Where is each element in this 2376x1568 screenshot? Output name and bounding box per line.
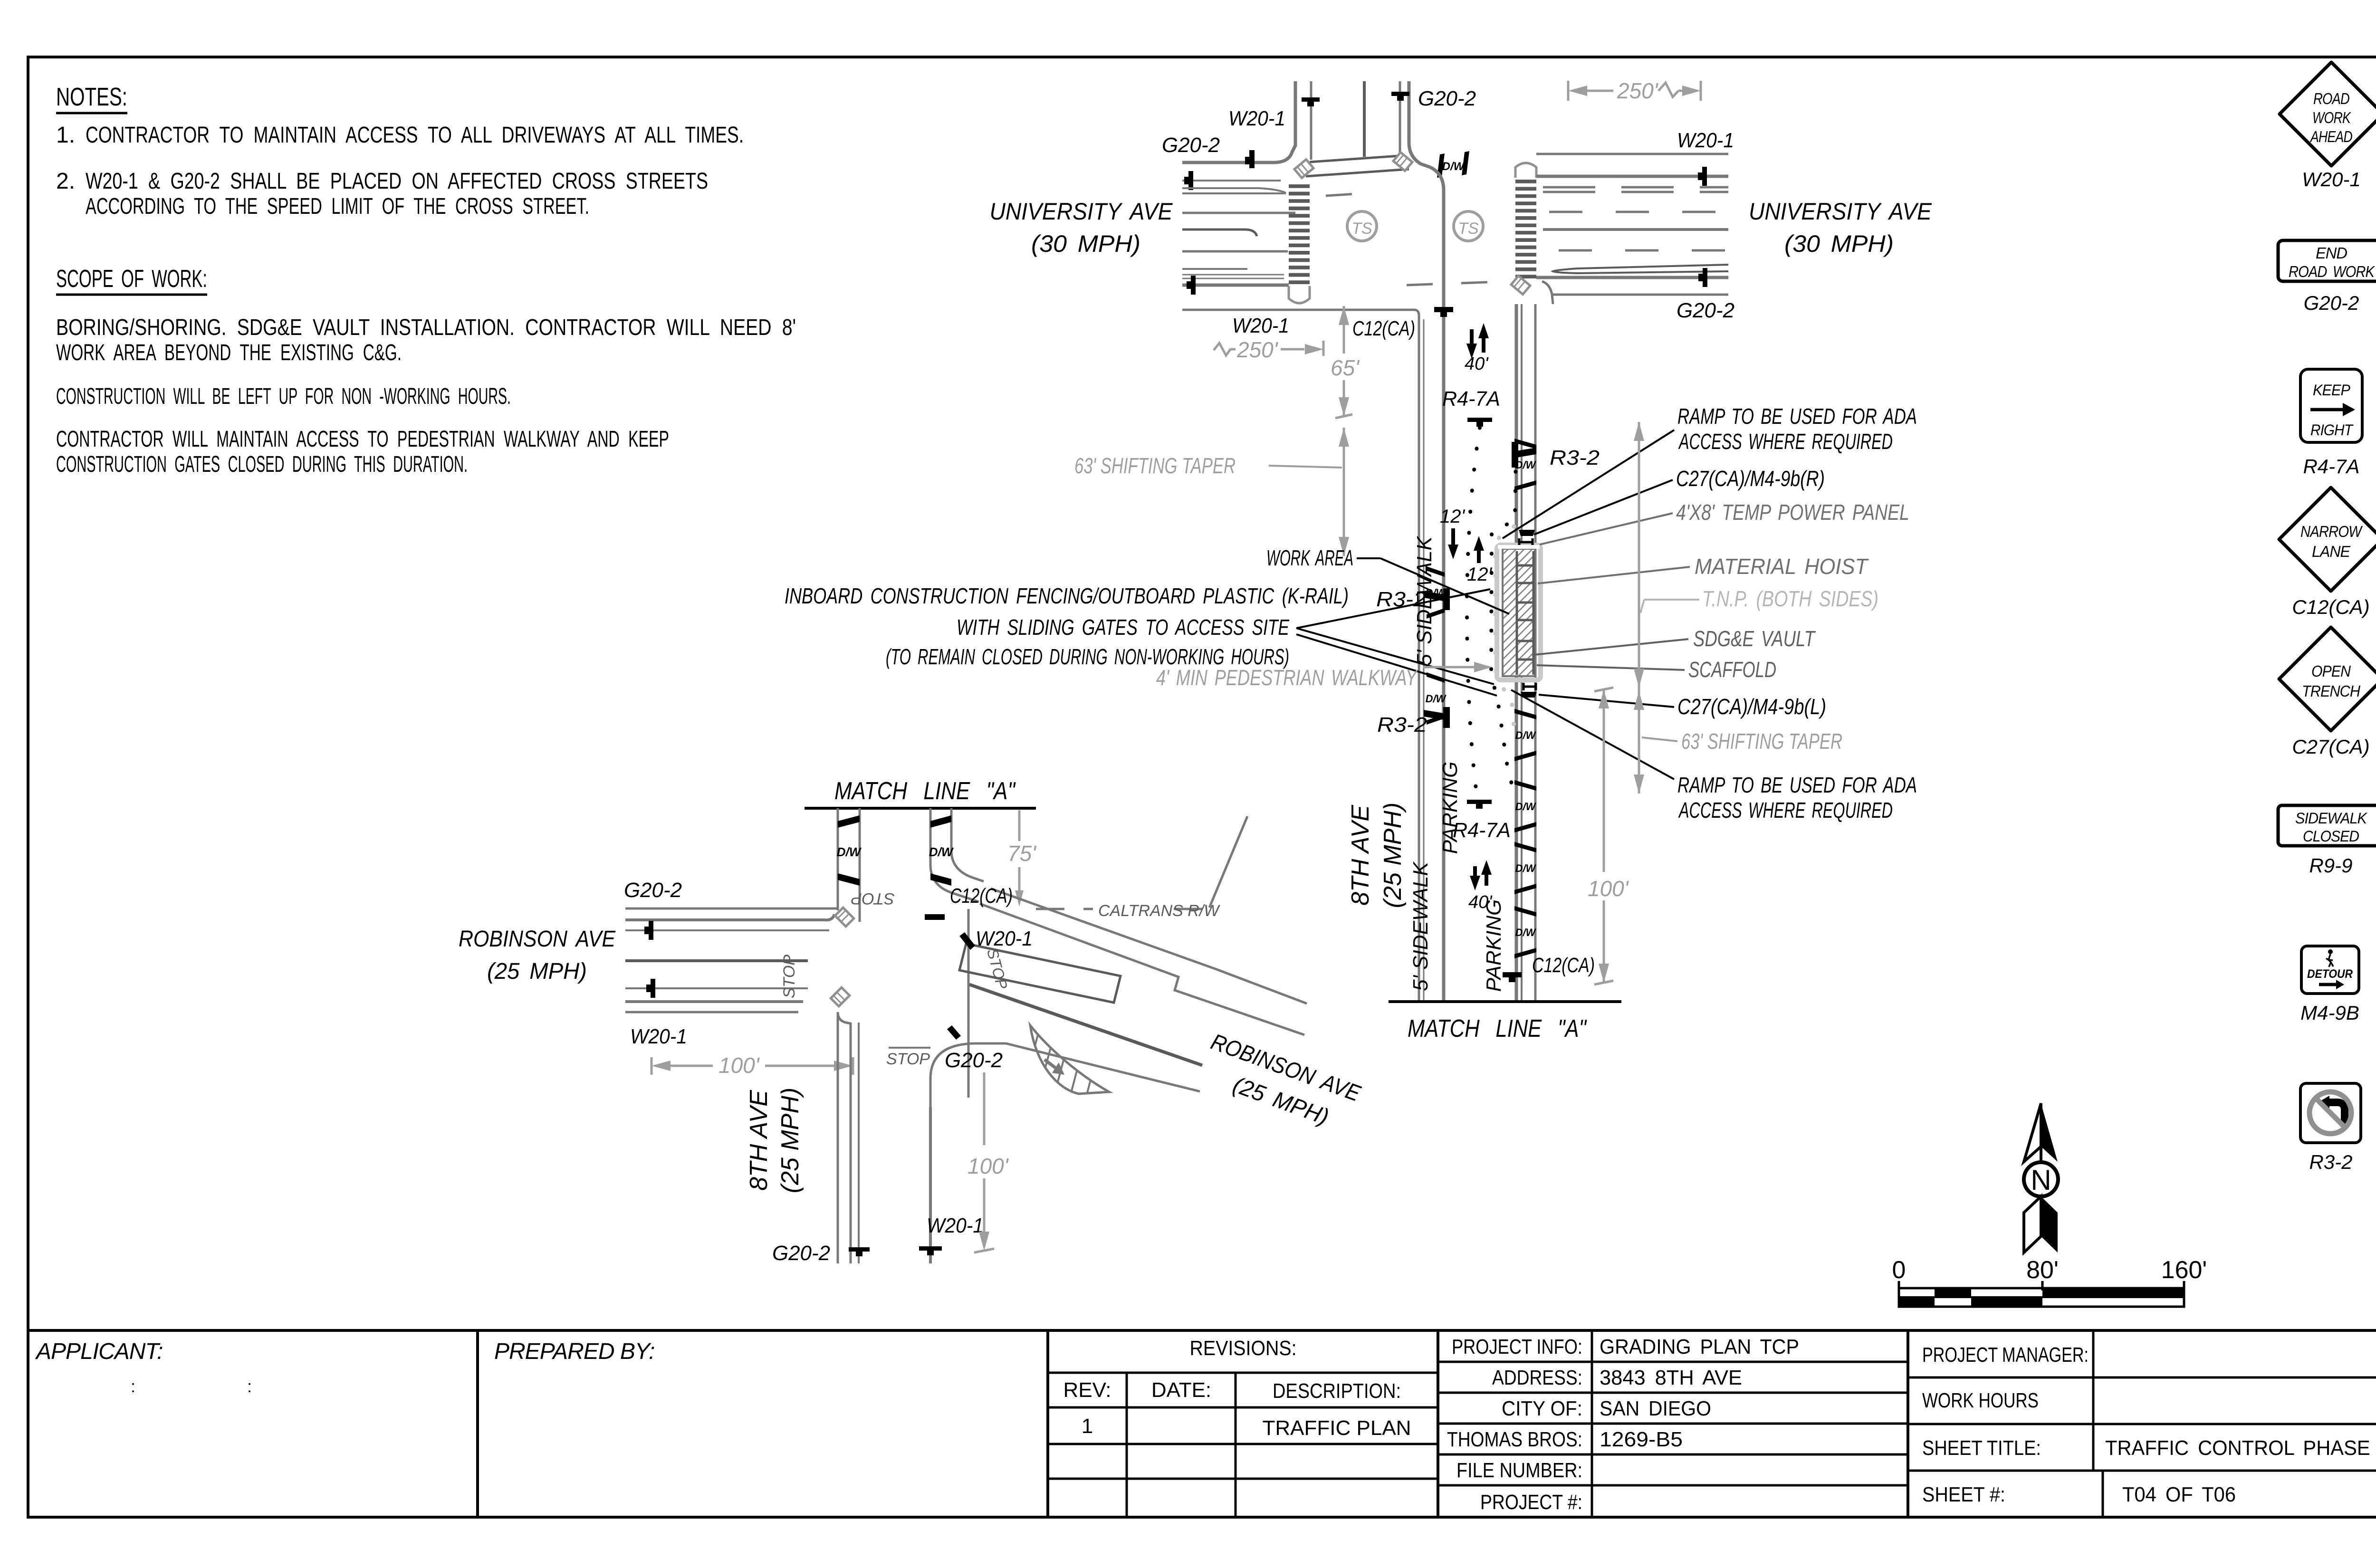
University Ave west leg north curb [1182, 145, 1295, 163]
svg-text:GRADING PLAN TCP: GRADING PLAN TCP [1600, 1335, 1799, 1358]
svg-text:R3-2: R3-2 [2309, 1151, 2352, 1173]
G20-2 marker south leg [849, 1247, 870, 1252]
svg-text:M4-9B: M4-9B [2300, 1002, 2359, 1024]
svg-text:W20-1: W20-1 [630, 1025, 687, 1048]
left turn arrow [2328, 1102, 2345, 1127]
svg-text:RIGHT: RIGHT [2310, 421, 2354, 439]
Robinson diagonal north property line [991, 889, 1217, 969]
svg-text:SHEET TITLE:: SHEET TITLE: [1922, 1436, 2041, 1460]
100 ft dimension south [983, 1072, 986, 1145]
8th Ave north leg west inner line [1310, 81, 1313, 160]
NE corner ramp [1393, 153, 1412, 171]
SW corner ramp [1289, 286, 1310, 303]
250 ft dimension east [1567, 81, 1570, 101]
40 ft two-way arrows lower [1473, 866, 1477, 884]
svg-text:(25 MPH): (25 MPH) [776, 1088, 804, 1193]
8th Ave east curb inner line [1521, 304, 1523, 1002]
svg-text:CONTRACTOR WILL MAINTAIN ACCES: CONTRACTOR WILL MAINTAIN ACCESS TO PEDES… [56, 427, 669, 452]
west leg lane line 3 [1182, 250, 1288, 253]
project info table [1438, 1361, 1908, 1363]
svg-text:C27(CA)/M4-9b(R): C27(CA)/M4-9b(R) [1676, 466, 1825, 491]
svg-text:MATCH LINE "A": MATCH LINE "A" [834, 777, 1016, 805]
svg-text:T.N.P. (BOTH SIDES): T.N.P. (BOTH SIDES) [1702, 586, 1878, 611]
east leg taper line [1553, 265, 1728, 273]
scale bar [1898, 1281, 1900, 1291]
driveway marker east curb 5 [1514, 906, 1536, 917]
revisions table [1048, 1372, 1438, 1374]
40 ft two-way arrows upper [1470, 329, 1474, 353]
svg-text:(30 MPH): (30 MPH) [1784, 230, 1894, 257]
8th Ave north leg east curb [1409, 81, 1430, 167]
Robinson Ave west leg north curb [625, 914, 834, 920]
svg-text:R4-7A: R4-7A [1442, 387, 1500, 411]
west leg south sign marker [1191, 276, 1196, 295]
svg-text:TRAFFIC PLAN: TRAFFIC PLAN [1263, 1416, 1411, 1440]
svg-text:TS: TS [1458, 220, 1479, 238]
svg-text:D/W: D/W [1515, 862, 1537, 874]
8th Ave west curb [1430, 167, 1444, 1002]
svg-text:W20-1: W20-1 [1232, 314, 1289, 337]
sign R4-7A KEEP RIGHT (rectangle with arrow) [2300, 369, 2362, 442]
R3-2 marker east curb [1514, 448, 1536, 458]
leader material hoist [1538, 567, 1690, 583]
title block outer lines [28, 1329, 2376, 1332]
svg-text:12': 12' [1467, 564, 1492, 585]
svg-text:250': 250' [1236, 337, 1279, 362]
east leg south property line [1553, 294, 1728, 296]
svg-text:WORK HOURS: WORK HOURS [1922, 1389, 2039, 1412]
svg-text:AHEAD: AHEAD [2309, 128, 2352, 145]
8th Ave upper segment west curb [859, 808, 861, 922]
8th Ave north leg west curb [1294, 81, 1297, 146]
svg-text:D/W: D/W [1426, 693, 1447, 705]
svg-text::: : [247, 1377, 252, 1396]
svg-text:D/W: D/W [1515, 729, 1537, 741]
west leg sign marker [1188, 171, 1193, 190]
12 ft label east [1477, 545, 1481, 563]
svg-text:PROJECT MANAGER:: PROJECT MANAGER: [1922, 1343, 2089, 1367]
svg-text:INBOARD CONSTRUCTION FENCING/O: INBOARD CONSTRUCTION FENCING/OUTBOARD PL… [785, 583, 1349, 608]
svg-text:G20-2: G20-2 [772, 1242, 830, 1265]
svg-text:R9-9: R9-9 [2309, 854, 2352, 877]
svg-text:TRENCH: TRENCH [2302, 682, 2360, 700]
svg-text:DETOUR: DETOUR [2307, 967, 2353, 981]
svg-text:40': 40' [1468, 892, 1493, 912]
match line A right [1389, 1000, 1621, 1003]
south property line to 8th Ave corner [1182, 310, 1419, 316]
svg-text:G20-2: G20-2 [1677, 299, 1734, 322]
svg-text:LANE: LANE [2312, 543, 2351, 560]
Robinson west leg north inner line [625, 929, 829, 931]
Robinson west leg south property line [625, 1011, 798, 1013]
detour arrow [2319, 983, 2336, 986]
svg-text:R4-7A: R4-7A [1453, 819, 1511, 842]
Robinson Ave west leg center line [625, 959, 808, 962]
driveway marker east curb 4 [1514, 842, 1536, 852]
north circle N [2024, 1162, 2058, 1196]
Robinson diagonal north curb [980, 904, 1304, 1035]
svg-text:W20-1: W20-1 [2302, 168, 2361, 191]
traffic taper dotted line [1467, 428, 1480, 793]
svg-text:END: END [2316, 244, 2347, 262]
sign R3-2 no-left-turn (square with slashed circle) [2300, 1083, 2361, 1143]
svg-text:C12(CA): C12(CA) [1352, 317, 1415, 340]
pedestrian glyph [2328, 949, 2333, 954]
svg-text:4' MIN PEDESTRIAN WALKWAY: 4' MIN PEDESTRIAN WALKWAY [1156, 665, 1418, 690]
svg-text:PROJECT INFO:: PROJECT INFO: [1452, 1335, 1582, 1358]
leader TNP [1644, 599, 1699, 601]
K-rail outline [1497, 545, 1541, 680]
svg-text:PROJECT #:: PROJECT #: [1480, 1491, 1582, 1514]
svg-text:C12(CA): C12(CA) [2292, 596, 2369, 618]
svg-text:PREPARED BY:: PREPARED BY: [494, 1339, 654, 1364]
east leg south curb [1536, 276, 1728, 279]
svg-text:TS: TS [1351, 220, 1372, 238]
north arrow head [2024, 1103, 2041, 1162]
100 ft dimension line [1603, 689, 1605, 872]
svg-text:OPEN: OPEN [2311, 662, 2351, 680]
white gate line top [1498, 545, 1540, 549]
svg-text:G20-2: G20-2 [2304, 292, 2359, 314]
leaders sliding gates [1296, 589, 1490, 628]
svg-text:WORK: WORK [2312, 109, 2351, 126]
svg-text:ACCESS WHERE REQUIRED: ACCESS WHERE REQUIRED [1678, 429, 1893, 454]
svg-text:G20-2: G20-2 [1418, 87, 1476, 110]
leader C27 L [1539, 695, 1674, 707]
svg-text:MATERIAL HOIST: MATERIAL HOIST [1695, 554, 1869, 579]
Robinson west leg south lane line [625, 987, 808, 989]
svg-text:REVISIONS:: REVISIONS: [1190, 1337, 1297, 1360]
svg-text:1269-B5: 1269-B5 [1600, 1428, 1683, 1451]
8th Ave north leg centerline [1363, 81, 1366, 157]
leader ramp bottom [1511, 690, 1674, 779]
driveway marker west curb 1 [1427, 566, 1445, 577]
svg-text:RAMP TO BE USED FOR ADA: RAMP TO BE USED FOR ADA [1677, 773, 1917, 797]
svg-text:R3-2: R3-2 [1550, 446, 1600, 469]
svg-text:1: 1 [1082, 1415, 1093, 1438]
svg-text:G20-2: G20-2 [1162, 134, 1220, 157]
driveway marker west curb 2 [1427, 672, 1445, 683]
svg-text:(30 MPH): (30 MPH) [1031, 230, 1140, 257]
driveway marker east curb 2 [1514, 709, 1536, 719]
svg-text:W20-1: W20-1 [976, 927, 1033, 950]
svg-text:SCAFFOLD: SCAFFOLD [1688, 657, 1776, 682]
svg-text:SCOPE OF WORK:: SCOPE OF WORK: [56, 265, 207, 293]
SE corner curb [1542, 281, 1553, 304]
svg-text:3843 8TH AVE: 3843 8TH AVE [1600, 1366, 1742, 1389]
east leg sign marker north [1702, 167, 1707, 186]
svg-text:1.: 1. [56, 123, 75, 148]
svg-text:NARROW: NARROW [2300, 523, 2363, 540]
arrow pedestrian walkway [1423, 666, 1479, 669]
svg-text:ROBINSON AVE: ROBINSON AVE [459, 927, 616, 952]
leader work area [1380, 558, 1509, 614]
svg-text:C27(CA)/M4-9b(L): C27(CA)/M4-9b(L) [1677, 694, 1826, 719]
svg-text:D/W: D/W [1426, 587, 1447, 599]
north arrow tail [2024, 1196, 2041, 1252]
svg-text:W20-1: W20-1 [1677, 129, 1734, 152]
svg-text::: : [131, 1377, 135, 1396]
svg-text:W20-1 & G20-2 SHALL BE PLACED: W20-1 & G20-2 SHALL BE PLACED ON AFFECTE… [86, 169, 708, 194]
svg-text:SIDEWALK: SIDEWALK [2295, 810, 2368, 827]
svg-text:ACCESS WHERE REQUIRED: ACCESS WHERE REQUIRED [1678, 798, 1893, 822]
svg-text:WITH SLIDING GATES TO ACCESS S: WITH SLIDING GATES TO ACCESS SITE [957, 615, 1290, 640]
svg-text:D/W: D/W [1515, 927, 1537, 938]
svg-text:FILE NUMBER:: FILE NUMBER: [1456, 1459, 1582, 1482]
svg-text:CONTRACTOR TO MAINTAIN ACCESS: CONTRACTOR TO MAINTAIN ACCESS TO ALL DRI… [86, 123, 744, 148]
svg-text:N: N [2031, 1164, 2051, 1196]
63 ft shifting taper dimension upper [1343, 428, 1345, 556]
east leg dashed lane line [1549, 211, 1728, 213]
svg-text:CONSTRUCTION GATES CLOSED DURI: CONSTRUCTION GATES CLOSED DURING THIS DU… [56, 452, 468, 477]
sign C27(CA) OPEN TRENCH (diamond) [2279, 627, 2376, 731]
D/W marker north side [1437, 153, 1445, 178]
match line A left [805, 807, 1036, 810]
W20-1 marker south leg [919, 1246, 942, 1251]
svg-text:RAMP TO BE USED FOR ADA: RAMP TO BE USED FOR ADA [1677, 404, 1917, 429]
pedestrian walkway dotted line [1495, 526, 1514, 727]
west crosswalk zebra [1289, 184, 1310, 188]
G20-2 marker north leg [1391, 92, 1409, 96]
svg-text:T04 OF T06: T04 OF T06 [2122, 1483, 2236, 1506]
100 ft dimension west leg [651, 1057, 653, 1075]
driveway band east [930, 815, 951, 828]
svg-text:WORK AREA: WORK AREA [1266, 545, 1353, 570]
svg-text:R4-7A: R4-7A [2303, 455, 2359, 478]
svg-text:D/W: D/W [929, 845, 954, 859]
interior lane dashes [1326, 192, 1378, 196]
west leg lane line 2 [1182, 212, 1295, 214]
traffic signal TS west [1347, 211, 1377, 241]
svg-text:SAN DIEGO: SAN DIEGO [1600, 1397, 1711, 1420]
NW corner ramp [1294, 160, 1313, 178]
scaffold ladder [1516, 551, 1518, 675]
C27 sign marker top [1519, 530, 1535, 536]
west leg median line [1182, 229, 1257, 236]
8th Ave east curb [1515, 304, 1518, 1002]
svg-text:CONSTRUCTION WILL BE LEFT UP F: CONSTRUCTION WILL BE LEFT UP FOR NON -WO… [56, 384, 511, 409]
65 ft dimension [1343, 306, 1345, 354]
east leg north curb [1536, 175, 1728, 178]
sign M4-9B pedestrian DETOUR (rectangle) [2301, 946, 2359, 994]
svg-text:C12(CA): C12(CA) [950, 884, 1013, 908]
svg-text:D/W: D/W [1515, 801, 1537, 813]
svg-text:160': 160' [2161, 1256, 2207, 1284]
8th Ave west property inner line [1423, 319, 1425, 1002]
sign R9-9 SIDEWALK CLOSED (rectangle) [2278, 805, 2376, 846]
svg-text:UNIVERSITY AVE: UNIVERSITY AVE [1749, 198, 1932, 225]
construction fence dotted line upper [1491, 452, 1516, 789]
north crosswalk lines [1310, 156, 1399, 162]
svg-text:250': 250' [1617, 78, 1659, 103]
W20-1 marker corner [959, 932, 975, 950]
svg-text:THOMAS BROS:: THOMAS BROS: [1447, 1428, 1582, 1451]
svg-text:0: 0 [1892, 1256, 1906, 1284]
svg-text:C12(CA): C12(CA) [1532, 954, 1595, 977]
svg-text:(25 MPH): (25 MPH) [487, 959, 587, 984]
8th Ave south leg west property line [838, 1012, 851, 1263]
corner ramp NW [835, 908, 854, 927]
temp power panel symbol bottom [1523, 683, 1525, 690]
svg-text:100': 100' [968, 1154, 1009, 1178]
svg-text:MATCH LINE "A": MATCH LINE "A" [1408, 1015, 1587, 1042]
leader scaffold [1537, 665, 1685, 670]
west leg left-turn pocket [1182, 187, 1258, 189]
traffic signal TS east [1454, 211, 1483, 241]
Caltrans boundary line [1209, 816, 1247, 908]
svg-text:BORING/SHORING. SDG&E VAULT IN: BORING/SHORING. SDG&E VAULT INSTALLATION… [56, 315, 796, 340]
SE corner ramp [1511, 276, 1530, 295]
Robinson diagonal stop bar box [959, 944, 1121, 1003]
east leg dashed lane line 2 [1559, 249, 1728, 252]
east leg north property line [1536, 153, 1728, 155]
75 ft dimension [1018, 810, 1021, 841]
R4-7A sign marker upper [1467, 418, 1492, 422]
svg-text:80': 80' [2026, 1256, 2059, 1284]
svg-text:12': 12' [1440, 506, 1465, 527]
C12 marker corner [925, 914, 945, 920]
island arrow [1044, 1060, 1056, 1068]
svg-text:TRAFFIC CONTROL PHASE 3: TRAFFIC CONTROL PHASE 3 [2105, 1436, 2376, 1460]
leader C27 R [1534, 480, 1673, 535]
svg-text:SHEET #:: SHEET #: [1922, 1483, 2005, 1506]
svg-text:UNIVERSITY AVE: UNIVERSITY AVE [990, 198, 1173, 225]
svg-text:8TH AVE: 8TH AVE [1347, 804, 1374, 906]
svg-text:63' SHIFTING TAPER: 63' SHIFTING TAPER [1681, 729, 1842, 754]
svg-text:W20-1: W20-1 [1228, 107, 1285, 130]
svg-text:STOP: STOP [851, 889, 895, 908]
svg-text:R3-2: R3-2 [1377, 713, 1427, 736]
svg-text:G20-2: G20-2 [945, 1049, 1003, 1072]
svg-text:CLOSED: CLOSED [2303, 828, 2359, 845]
W20-1 marker north leg [1302, 97, 1320, 102]
east leg double dashed lane line [1543, 186, 1728, 189]
svg-text:D/W: D/W [1442, 160, 1466, 173]
svg-text:100': 100' [719, 1053, 760, 1078]
Caltrans R/W vertical line [968, 909, 970, 1098]
svg-text:75': 75' [1007, 841, 1037, 866]
svg-text:100': 100' [1588, 876, 1629, 901]
driveway marker east curb 1 [1514, 439, 1536, 449]
vertical dimension line right [1638, 422, 1640, 794]
work area hatched rectangle [1503, 549, 1535, 676]
svg-text:CALTRANS R/W: CALTRANS R/W [1098, 902, 1220, 920]
svg-text:2.: 2. [56, 169, 75, 194]
svg-text:ADDRESS:: ADDRESS: [1492, 1366, 1582, 1389]
Robinson west leg south curb [625, 1000, 803, 1003]
svg-text:8TH AVE: 8TH AVE [745, 1090, 773, 1191]
svg-text:STOP: STOP [780, 955, 798, 998]
svg-text:KEEP: KEEP [2313, 382, 2351, 399]
svg-text:G20-2: G20-2 [624, 879, 682, 902]
svg-text:5' SIDEWALK: 5' SIDEWALK [1409, 861, 1432, 991]
east leg solid lane line [1543, 228, 1728, 231]
leader ramp top [1503, 430, 1674, 538]
leader temp power panel [1540, 513, 1673, 545]
svg-text:D/W: D/W [837, 845, 862, 859]
east leg sign marker south [1703, 268, 1707, 287]
west leg lane line [1182, 180, 1281, 182]
west leg south curb [1182, 284, 1289, 287]
8th Ave south leg inner line [858, 1023, 860, 1263]
Robinson diagonal centerline [969, 985, 1202, 1065]
8th Ave south leg west curb [837, 1012, 839, 1263]
8th Ave upper segment east curb [930, 808, 979, 902]
8th Ave south leg east curb curve to Robinson [929, 1107, 932, 1263]
svg-text:4'X8' TEMP POWER PANEL: 4'X8' TEMP POWER PANEL [1676, 500, 1909, 525]
sign C12(CA) NARROW LANE (diamond) [2279, 488, 2376, 591]
svg-text:APPLICANT:: APPLICANT: [35, 1339, 163, 1364]
sign W20-1 ROAD WORK AHEAD (diamond) [2280, 62, 2376, 166]
corner ramp above east crosswalk [1515, 163, 1536, 178]
svg-text:63' SHIFTING TAPER: 63' SHIFTING TAPER [1074, 453, 1236, 478]
sign marker south [651, 979, 655, 998]
west leg lane line 4 [1182, 268, 1247, 270]
sign tick on caltrans line [947, 1025, 961, 1040]
Robinson diagonal south edge [930, 1043, 1200, 1107]
west leg G20-2 marker [1249, 150, 1255, 168]
driveway band west [838, 815, 860, 828]
svg-text:ACCORDING TO THE SPEED LIMIT O: ACCORDING TO THE SPEED LIMIT OF THE CROS… [86, 194, 589, 219]
svg-text:STOP: STOP [886, 1050, 930, 1068]
8th Ave upper segment east property line [951, 808, 984, 881]
8th Ave west property line [1418, 316, 1420, 1002]
250 ft dimension west [1322, 341, 1325, 356]
svg-text:REV:: REV: [1063, 1378, 1111, 1402]
prohibition circle and slash [2309, 1092, 2351, 1134]
svg-text:NOTES:: NOTES: [56, 83, 127, 111]
east crosswalk zebra [1515, 180, 1536, 183]
driveway marker east curb 3 [1514, 780, 1536, 791]
R3-2 marker west curb 2 [1424, 710, 1447, 720]
svg-text:W20-1: W20-1 [927, 1214, 984, 1237]
svg-text:WORK AREA BEYOND THE EXISTING: WORK AREA BEYOND THE EXISTING C&G. [56, 340, 402, 365]
temp power panel symbol top [1518, 538, 1521, 546]
svg-text:SDG&E VAULT: SDG&E VAULT [1693, 626, 1816, 651]
svg-text:D/W: D/W [1515, 459, 1537, 471]
R3-2 marker west curb 1 [1424, 591, 1447, 602]
svg-text:ROAD WORK: ROAD WORK [2289, 263, 2376, 280]
Caltrans R/W dashed line [1036, 908, 1093, 910]
leader 63 ft right [1642, 737, 1677, 741]
sign marker north [649, 921, 653, 940]
svg-text:65': 65' [1331, 355, 1360, 380]
8th Ave north leg east inner line [1399, 81, 1401, 155]
8th Ave upper segment west property line [837, 808, 839, 910]
svg-text:CITY OF:: CITY OF: [1502, 1397, 1582, 1420]
C12 sign marker top [1434, 307, 1453, 312]
C12 sign marker bottom [1503, 972, 1522, 977]
8th Ave east property line [1534, 304, 1537, 1002]
svg-text:40': 40' [1465, 354, 1489, 374]
svg-text:PARKING: PARKING [1482, 899, 1505, 992]
Robinson Ave west leg north property line [625, 908, 838, 910]
svg-text:ROAD: ROAD [2313, 90, 2349, 107]
svg-text:C27(CA): C27(CA) [2292, 736, 2369, 758]
C27 sign marker bottom [1521, 692, 1537, 698]
svg-text:DESCRIPTION:: DESCRIPTION: [1273, 1379, 1401, 1403]
leader SDGE vault [1534, 639, 1688, 655]
right info table [1908, 1377, 2376, 1379]
svg-text:DATE:: DATE: [1151, 1378, 1211, 1402]
corner ramp SW [831, 987, 850, 1006]
svg-text:(25 MPH): (25 MPH) [1379, 803, 1407, 908]
keep-right arrow [2310, 408, 2343, 411]
sign G20-2 END ROAD WORK (rectangle) [2278, 240, 2376, 281]
R4-7A sign marker lower [1467, 800, 1492, 804]
